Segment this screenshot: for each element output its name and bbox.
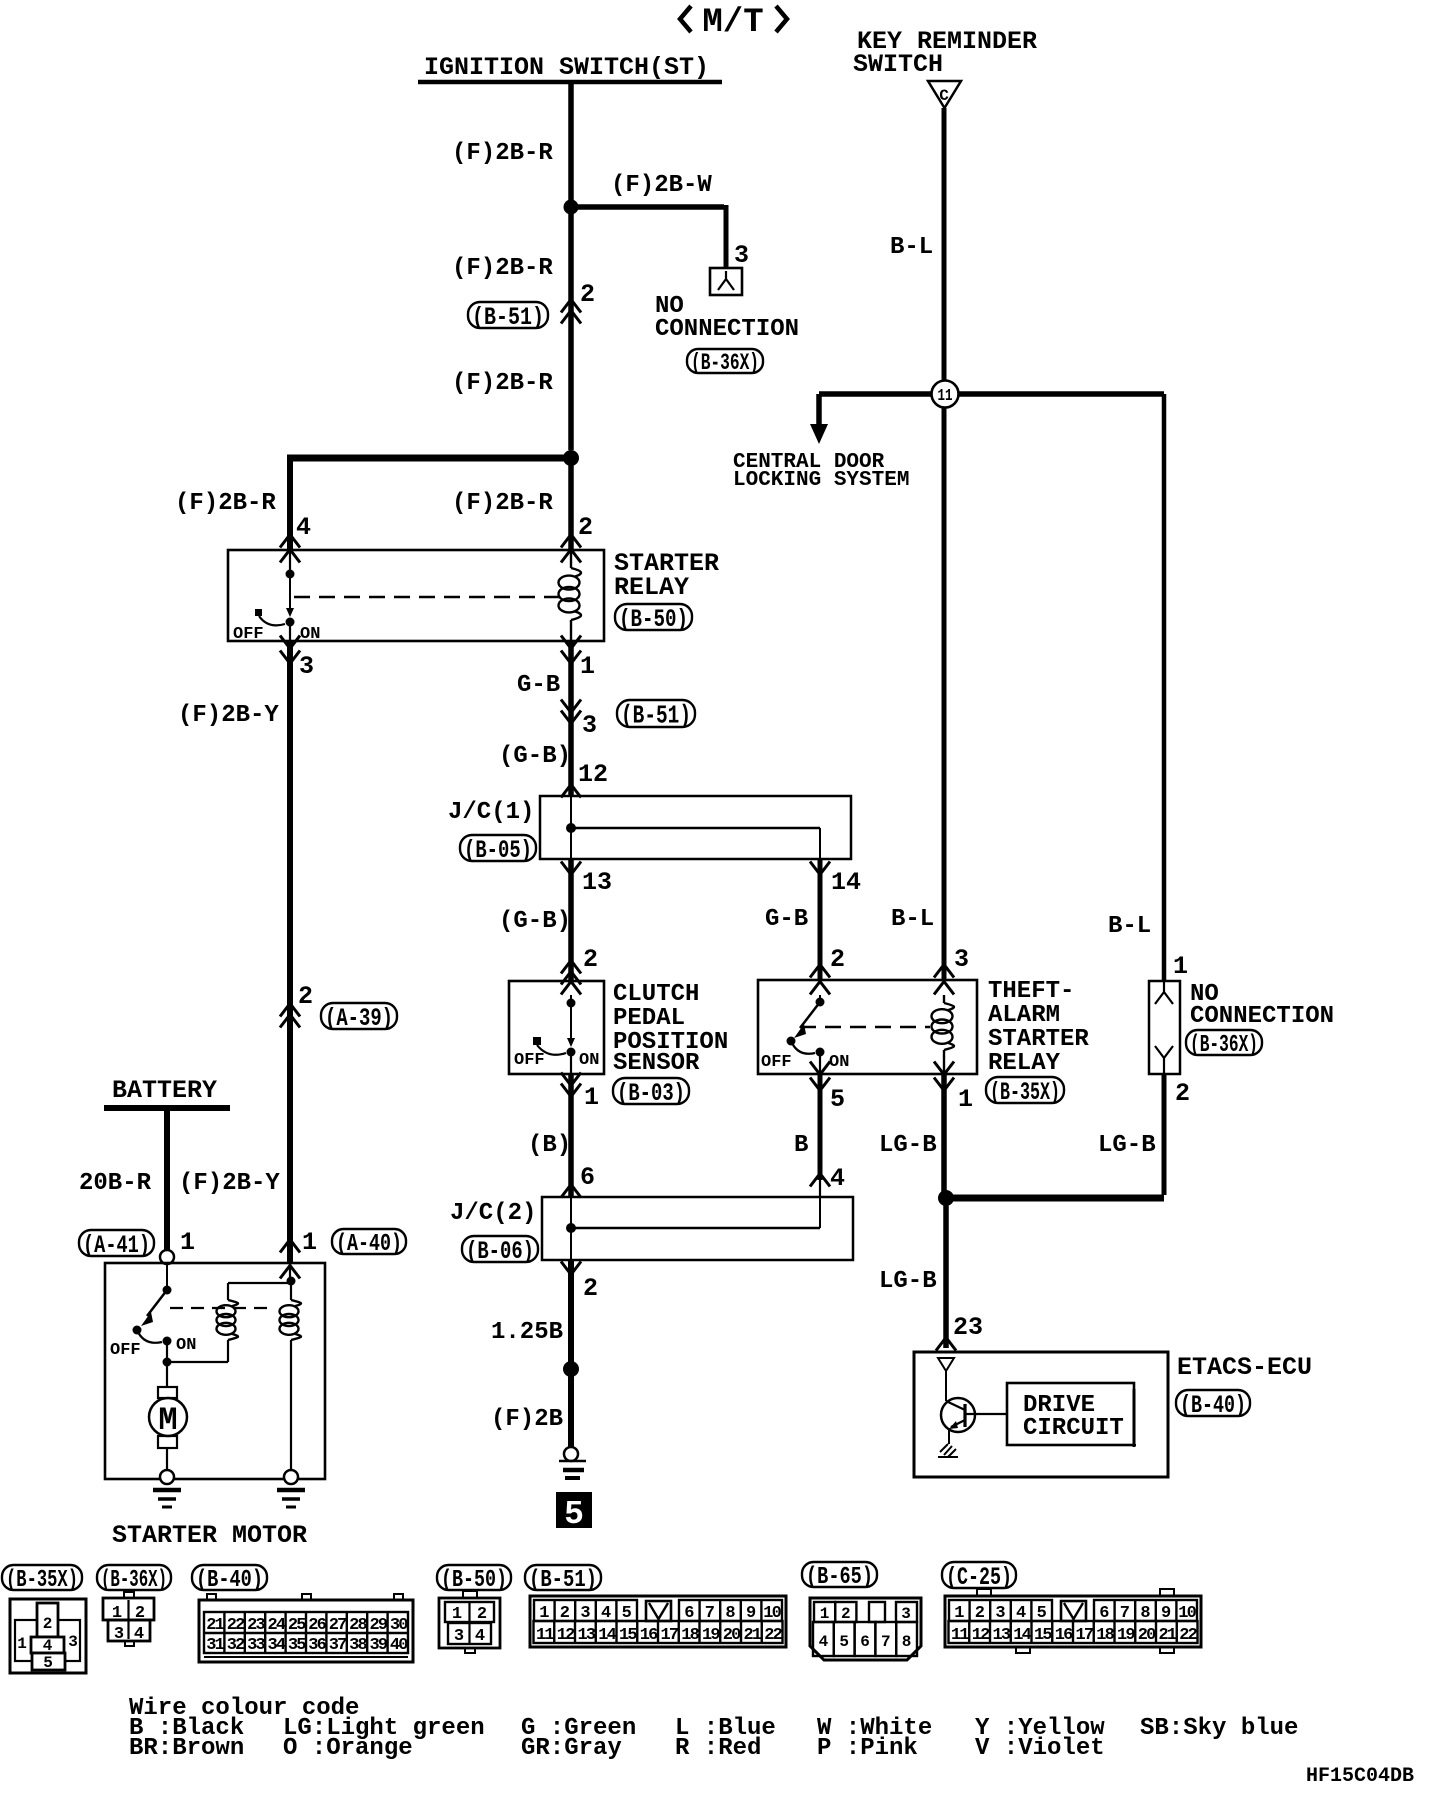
- arrow out theft relay pin5: [810, 1062, 830, 1091]
- svg-text:(F)2B-R: (F)2B-R: [452, 490, 553, 517]
- arrow out J/C(2) pin2: [561, 1262, 581, 1275]
- wire junction B to starter relay pin2: [568, 458, 574, 550]
- svg-text:R :Red: R :Red: [675, 1735, 761, 1762]
- svg-text:BR:Brown: BR:Brown: [129, 1735, 244, 1762]
- pin 2 J/C(2): [583, 1274, 598, 1303]
- pin 6 J/C(2): [580, 1163, 595, 1192]
- connector ref oval A-41: [79, 1230, 154, 1260]
- svg-text:CONNECTION: CONNECTION: [655, 316, 799, 343]
- svg-text:OFF: OFF: [761, 1053, 792, 1072]
- svg-text:30: 30: [390, 1616, 408, 1635]
- svg-text:1: 1: [580, 652, 595, 681]
- svg-text:38: 38: [349, 1636, 367, 1655]
- motor M: [149, 1398, 187, 1439]
- label STARTER MOTOR: [112, 1521, 307, 1550]
- svg-text:2: 2: [43, 1615, 53, 1633]
- svg-text:4: 4: [475, 1627, 485, 1646]
- label LG-B right: [1098, 1132, 1156, 1159]
- label G-B right: [765, 906, 808, 933]
- label B-L: [890, 234, 933, 261]
- connector drawing C-25: [945, 1589, 1201, 1653]
- svg-text:12: 12: [578, 760, 608, 789]
- hold coil node dot: [287, 1277, 296, 1286]
- connector ref oval B-36X (right): [1186, 1030, 1262, 1059]
- connector terminal no-connection B-36X (top): [710, 268, 742, 295]
- label (F)2B-R third: [452, 370, 553, 397]
- svg-text:V :Violet: V :Violet: [975, 1735, 1105, 1762]
- svg-text:(F)2B-R: (F)2B-R: [452, 255, 553, 282]
- starter motor switch arm: [141, 1290, 167, 1326]
- svg-text:LG-B: LG-B: [879, 1268, 937, 1295]
- svg-text:CLUTCH: CLUTCH: [613, 981, 699, 1008]
- connector ref oval A-40: [332, 1229, 406, 1258]
- pin 3 at B-51 crossing: [582, 711, 597, 740]
- svg-text:(B-35X): (B-35X): [990, 1078, 1060, 1107]
- clutch sensor ON label: [579, 1051, 599, 1070]
- svg-text:(B-05): (B-05): [464, 836, 532, 865]
- pin 1 clutch sensor: [584, 1083, 599, 1112]
- pin 12 J/C(1): [578, 760, 608, 789]
- wire thick LG-B horizontal join: [946, 1195, 1164, 1202]
- svg-text:3: 3: [114, 1625, 124, 1644]
- wire no-connection down LG-B: [1162, 1074, 1167, 1195]
- wire colour code legend: [129, 1695, 1298, 1762]
- clutch sensor moving arrow: [567, 1038, 575, 1047]
- label STARTER RELAY: [614, 549, 719, 602]
- connector ref oval B-36X (bottom): [97, 1565, 171, 1594]
- label 1.25B: [491, 1319, 563, 1346]
- connector ref oval B-35X (relay): [986, 1077, 1064, 1107]
- label CENTRAL DOOR LOCKING SYSTEM: [733, 451, 909, 492]
- svg-text:(B-40): (B-40): [1180, 1391, 1246, 1420]
- pin 2 at A-39 crossing: [298, 982, 313, 1011]
- pin 13: [582, 868, 612, 897]
- svg-text:3: 3: [901, 1605, 911, 1623]
- wire theft relay pin1 down LG-B to ETACS: [944, 1074, 946, 1348]
- svg-text:(A-41): (A-41): [83, 1231, 150, 1260]
- pin 2 no-connection: [1175, 1079, 1190, 1108]
- starter relay coil: [559, 550, 581, 641]
- svg-text:SENSOR: SENSOR: [613, 1050, 700, 1077]
- arrow into ETACS pin23: [936, 1338, 956, 1351]
- pull-in coil: [217, 1283, 238, 1340]
- svg-text:4: 4: [819, 1633, 829, 1651]
- svg-text:STARTER MOTOR: STARTER MOTOR: [112, 1521, 307, 1550]
- svg-text:RELAY: RELAY: [614, 573, 689, 602]
- arrow into theft relay pin3: [934, 965, 954, 995]
- svg-text:11: 11: [951, 1626, 969, 1645]
- ground terminal circle: [564, 1447, 578, 1461]
- arrow out relay pin1: [561, 636, 581, 664]
- J/C(1) internal node dot: [566, 823, 576, 833]
- theft relay OFF label: [761, 1053, 792, 1072]
- svg-text:(A-39): (A-39): [325, 1004, 393, 1033]
- ground terminal circle left: [160, 1470, 174, 1484]
- connector ref oval B-05: [460, 835, 536, 865]
- wire key reminder down B-L: [942, 108, 947, 381]
- arrow out J/C(1) pin13: [561, 862, 581, 875]
- svg-text:G-B: G-B: [517, 672, 560, 699]
- pin 3 starter relay: [299, 652, 314, 681]
- wire horizontal at junction 11: [819, 391, 1164, 397]
- svg-text:14: 14: [831, 868, 861, 897]
- svg-text:(A-40): (A-40): [336, 1231, 402, 1258]
- node big junction dot: [563, 1361, 579, 1377]
- svg-text:17: 17: [660, 1626, 678, 1645]
- svg-text:21: 21: [206, 1616, 224, 1635]
- wire J/C(1) pin13 down to clutch sensor: [568, 860, 574, 980]
- svg-text:(F)2B-R: (F)2B-R: [452, 370, 553, 397]
- node numbered junction 11: [932, 381, 959, 408]
- svg-text:THEFT-: THEFT-: [988, 978, 1074, 1005]
- J/C(1) internal bus line: [571, 828, 820, 859]
- J/C(2) internal node dot: [566, 1223, 576, 1233]
- J/C(1) internal left wire: [570, 796, 572, 859]
- svg-text:2: 2: [1175, 1079, 1190, 1108]
- svg-text:B-L: B-L: [890, 234, 933, 261]
- connector ref oval B-51 (bottom): [525, 1565, 601, 1594]
- svg-text:2: 2: [578, 513, 593, 542]
- label (B): [528, 1132, 571, 1159]
- connector ref oval B-40 (ETACS): [1176, 1390, 1250, 1420]
- label (F)2B-W: [611, 172, 712, 199]
- svg-text:(B-40): (B-40): [196, 1567, 263, 1594]
- svg-text:1: 1: [958, 1085, 973, 1114]
- label (F)2B-Y: [178, 702, 279, 729]
- svg-text:(G-B): (G-B): [499, 908, 571, 935]
- svg-text:33: 33: [247, 1636, 265, 1655]
- theft relay ON dot: [816, 1048, 825, 1075]
- svg-text:15: 15: [1034, 1626, 1052, 1645]
- svg-text:39: 39: [369, 1636, 387, 1655]
- pin 1 battery feed: [180, 1228, 195, 1257]
- svg-text:LOCKING SYSTEM: LOCKING SYSTEM: [733, 469, 909, 492]
- svg-text:27: 27: [329, 1616, 347, 1635]
- label CLUTCH PEDAL POSITION SENSOR: [613, 981, 728, 1077]
- pin 3 theft relay: [954, 945, 969, 974]
- clutch sensor ON dot: [567, 1048, 576, 1075]
- svg-text:BATTERY: BATTERY: [112, 1076, 217, 1105]
- starter relay ON label: [300, 625, 320, 644]
- svg-text:4: 4: [134, 1625, 144, 1644]
- svg-text:OFF: OFF: [514, 1051, 545, 1070]
- junction marker double chevron B-51: [561, 300, 581, 324]
- pin 2 at B-51 crossing: [580, 280, 595, 309]
- svg-text:5: 5: [564, 1496, 584, 1533]
- svg-text:5: 5: [830, 1085, 845, 1114]
- svg-text:1: 1: [1173, 952, 1188, 981]
- svg-text:20B-R: 20B-R: [79, 1170, 152, 1197]
- svg-text:4: 4: [296, 513, 311, 542]
- svg-text:1: 1: [820, 1605, 830, 1623]
- J/C(2) internal left wire: [570, 1197, 572, 1260]
- svg-text:29: 29: [369, 1616, 387, 1635]
- starter motor ON dot: [163, 1337, 172, 1346]
- svg-text:1: 1: [112, 1604, 122, 1623]
- arrow into starter motor pin1: [280, 1240, 300, 1279]
- pin 4 starter relay: [296, 513, 311, 542]
- svg-text:22: 22: [1179, 1626, 1197, 1645]
- svg-text:(B-51): (B-51): [621, 701, 691, 731]
- node junction dot A: [564, 200, 579, 215]
- svg-text:4: 4: [830, 1164, 845, 1193]
- pin 3: [734, 241, 749, 270]
- svg-text:23: 23: [953, 1313, 983, 1342]
- svg-text:(F)2B: (F)2B: [491, 1406, 563, 1433]
- svg-text:ON: ON: [579, 1051, 599, 1070]
- arrow into clutch sensor: [561, 961, 581, 985]
- svg-text:3: 3: [299, 652, 314, 681]
- svg-text:(B-35X): (B-35X): [6, 1567, 78, 1594]
- arrow into relay pin2: [561, 535, 581, 563]
- ground ref black box 5: [556, 1492, 592, 1533]
- arrow out clutch sensor pin1: [561, 1073, 581, 1097]
- connector drawing B-40: [199, 1594, 413, 1662]
- label NO CONNECTION (right): [1190, 981, 1334, 1030]
- wire ON dot down to motor: [166, 1341, 168, 1387]
- wire arrow to central door locking: [810, 394, 828, 444]
- junction connector J/C(2) box: [542, 1197, 853, 1260]
- wire thick branch left to starter relay pin4: [287, 458, 571, 550]
- svg-text:(F)2B-R: (F)2B-R: [175, 490, 276, 517]
- svg-text:35: 35: [288, 1636, 306, 1655]
- theft relay dashed link: [800, 1026, 930, 1028]
- ETACS-ECU box B-40: [914, 1352, 1168, 1477]
- svg-text:28: 28: [349, 1616, 367, 1635]
- pin 14: [831, 868, 861, 897]
- arrow out J/C(1) pin14: [810, 862, 830, 875]
- pin 2 clutch sensor: [583, 945, 598, 974]
- wire coil top to hold coil node: [228, 1282, 292, 1284]
- svg-text:(G-B): (G-B): [499, 743, 571, 770]
- connector no-connection B-36X (right): [1149, 981, 1180, 1074]
- svg-text:OFF: OFF: [233, 625, 264, 644]
- svg-text:31: 31: [206, 1636, 224, 1655]
- svg-text:PEDAL: PEDAL: [613, 1005, 685, 1032]
- svg-text:2: 2: [135, 1604, 145, 1623]
- arrow into theft relay pin2: [810, 965, 830, 995]
- svg-text:2: 2: [580, 280, 595, 309]
- svg-text:19: 19: [1117, 1626, 1135, 1645]
- arrow into J/C(2) pin4: [810, 1174, 830, 1187]
- svg-text:(F)2B-W: (F)2B-W: [611, 172, 712, 199]
- starter relay ON contact dot: [286, 618, 295, 642]
- label KEY REMINDER SWITCH: [853, 27, 1037, 79]
- svg-text:21: 21: [743, 1626, 761, 1645]
- connector drawing B-50: [439, 1591, 500, 1653]
- theft relay coil: [932, 995, 954, 1074]
- svg-text:1.25B: 1.25B: [491, 1319, 563, 1346]
- starter relay OFF contact: [255, 609, 285, 625]
- connector ref oval B-51 (upper): [468, 302, 548, 332]
- wire relay pin1 down G-B: [568, 641, 574, 796]
- svg-text:G-B: G-B: [765, 906, 808, 933]
- svg-text:2: 2: [583, 945, 598, 974]
- theft relay contact node dot: [816, 998, 825, 1007]
- svg-text:O :Orange: O :Orange: [283, 1735, 413, 1762]
- svg-text:2: 2: [477, 1605, 487, 1624]
- svg-text:24: 24: [267, 1616, 285, 1635]
- svg-text:2: 2: [830, 945, 845, 974]
- svg-text:HF15C04DB: HF15C04DB: [1306, 1765, 1414, 1788]
- svg-text:5: 5: [43, 1654, 53, 1672]
- starter relay box B-50: [228, 550, 604, 641]
- svg-text:18: 18: [681, 1626, 699, 1645]
- arrow out theft relay pin1: [934, 1062, 954, 1091]
- svg-text:2: 2: [841, 1605, 851, 1623]
- svg-text:13: 13: [992, 1626, 1010, 1645]
- svg-text:2: 2: [583, 1274, 598, 1303]
- label (F)2B-R: [452, 140, 553, 167]
- pin 1 no-connection: [1173, 952, 1188, 981]
- label J/C(2): [450, 1200, 536, 1227]
- svg-text:7: 7: [881, 1633, 891, 1651]
- junction marker double chevron B-51 lower: [561, 700, 581, 724]
- svg-text:1: 1: [452, 1605, 462, 1624]
- hold-in coil: [280, 1281, 301, 1470]
- svg-text:STARTER: STARTER: [988, 1026, 1089, 1053]
- label (F)2B-Y lower: [179, 1170, 280, 1197]
- wire starter relay pin3 down to starter motor: [287, 641, 293, 1262]
- svg-text:12: 12: [557, 1626, 575, 1645]
- wire right branch down to no-connection B-36X: [1162, 394, 1167, 981]
- label THEFT-ALARM STARTER RELAY: [988, 978, 1089, 1077]
- arrow into J/C(1): [561, 785, 581, 798]
- starter motor ON label: [176, 1336, 196, 1355]
- pin 2 starter relay: [578, 513, 593, 542]
- starter relay OFF label: [233, 625, 264, 644]
- starter relay contact node dot: [286, 570, 295, 579]
- svg-text:13: 13: [577, 1626, 595, 1645]
- svg-text:RELAY: RELAY: [988, 1050, 1061, 1077]
- svg-text:17: 17: [1075, 1626, 1093, 1645]
- svg-text:GR:Gray: GR:Gray: [521, 1735, 622, 1762]
- svg-text:(B-06): (B-06): [466, 1237, 534, 1266]
- pin 5 theft relay: [830, 1085, 845, 1114]
- theft relay OFF dot: [787, 1037, 816, 1054]
- label (F)2B-R right: [452, 490, 553, 517]
- svg-text:20: 20: [1138, 1626, 1156, 1645]
- transistor Q1: [941, 1398, 975, 1444]
- label (F)2B-R left: [175, 490, 276, 517]
- connector ref oval A-39: [321, 1003, 397, 1033]
- svg-text:ON: ON: [829, 1053, 849, 1072]
- svg-text:(F)2B-Y: (F)2B-Y: [179, 1170, 280, 1197]
- pin 4 J/C(2): [830, 1164, 845, 1193]
- connector ref oval B-65 (bottom): [802, 1562, 877, 1591]
- wire battery down 20B-R: [164, 1108, 170, 1250]
- svg-text:CONNECTION: CONNECTION: [1190, 1003, 1334, 1030]
- svg-text:(F)2B-R: (F)2B-R: [452, 140, 553, 167]
- svg-text:(B-36X): (B-36X): [101, 1567, 167, 1594]
- arrow into J/C(2): [561, 1185, 581, 1198]
- connector ref oval B-50 (relay): [615, 604, 692, 634]
- svg-text:3: 3: [68, 1633, 78, 1651]
- svg-text:(B-36X): (B-36X): [1190, 1032, 1258, 1059]
- svg-text:OFF: OFF: [110, 1341, 141, 1360]
- svg-text:22: 22: [227, 1616, 245, 1635]
- svg-text:1: 1: [584, 1083, 599, 1112]
- svg-text:16: 16: [1055, 1626, 1073, 1645]
- label J/C(1): [448, 799, 534, 826]
- node junction dot LG-B: [938, 1190, 954, 1206]
- svg-text:20: 20: [723, 1626, 741, 1645]
- svg-text:32: 32: [227, 1636, 245, 1655]
- junction connector J/C(1) box: [540, 796, 851, 859]
- pin 1 starter relay: [580, 652, 595, 681]
- ETACS input triangle: [938, 1358, 954, 1401]
- svg-text:34: 34: [267, 1636, 285, 1655]
- svg-text:8: 8: [902, 1633, 912, 1651]
- connector drawing B-36X: [103, 1592, 154, 1646]
- svg-text:1: 1: [302, 1228, 317, 1257]
- svg-text:14: 14: [598, 1626, 616, 1645]
- theft relay contact arm: [794, 1002, 820, 1038]
- ground terminal circle right: [284, 1470, 298, 1484]
- connector ref oval B-03: [613, 1078, 689, 1108]
- svg-text:ETACS-ECU: ETACS-ECU: [1177, 1353, 1312, 1382]
- svg-text:36: 36: [308, 1636, 326, 1655]
- starter motor switch node dot: [163, 1286, 172, 1295]
- label NO CONNECTION (top): [655, 293, 799, 343]
- starter motor OFF dot: [133, 1326, 163, 1343]
- svg-text:25: 25: [288, 1616, 306, 1635]
- wire clutch sensor pin1 down to J/C(2): [568, 1074, 574, 1197]
- connector drawing B-35X: [10, 1599, 86, 1673]
- connector ref oval B-50 (bottom): [437, 1565, 511, 1594]
- label 20B-R: [79, 1170, 152, 1197]
- svg-text:21: 21: [1158, 1626, 1176, 1645]
- arrow into relay pin4: [280, 535, 300, 563]
- svg-text:B-L: B-L: [1108, 913, 1151, 940]
- connector ref oval B-40 (bottom): [192, 1565, 267, 1594]
- svg-text:19: 19: [702, 1626, 720, 1645]
- theft relay contact wire: [819, 995, 821, 1002]
- svg-text:(B-50): (B-50): [619, 605, 688, 634]
- battery: [104, 1076, 230, 1108]
- label B-L right: [1108, 913, 1151, 940]
- node junction dot B: [563, 450, 579, 466]
- svg-text:(B-36X): (B-36X): [691, 350, 759, 376]
- clutch pedal position sensor box B-03: [509, 981, 604, 1074]
- svg-text:23: 23: [247, 1616, 265, 1635]
- svg-text:26: 26: [308, 1616, 326, 1635]
- wire base to drive circuit: [965, 1413, 1007, 1415]
- connector drawing B-51: [530, 1596, 786, 1647]
- junction marker double chevron A-39: [280, 1004, 300, 1028]
- ground symbol right: [277, 1490, 305, 1507]
- wire junction 11 down to theft relay pin3: [942, 407, 947, 980]
- label G-B: [517, 672, 560, 699]
- svg-text:(B-50): (B-50): [441, 1567, 507, 1594]
- connector ref oval C-25 (bottom): [942, 1562, 1016, 1592]
- svg-text:(B): (B): [528, 1132, 571, 1159]
- starter relay contact arm line: [286, 574, 294, 617]
- svg-text:(B-51): (B-51): [529, 1567, 597, 1594]
- wire starter pin1 into box: [289, 1263, 291, 1281]
- theft-alarm starter relay box B-35X: [758, 980, 977, 1074]
- ground symbol center: [559, 1461, 586, 1478]
- svg-text:J/C(2): J/C(2): [450, 1200, 536, 1227]
- starter relay internal contact wire: [289, 550, 291, 574]
- svg-text:(F)2B-Y: (F)2B-Y: [178, 702, 279, 729]
- svg-text:13: 13: [582, 868, 612, 897]
- label (G-B) lower: [499, 908, 571, 935]
- label (F)2B: [491, 1406, 563, 1433]
- connector ref oval B-36X (top): [687, 349, 763, 376]
- wire node to pull-in coil: [167, 1340, 228, 1362]
- transistor emitter ground: [938, 1444, 958, 1457]
